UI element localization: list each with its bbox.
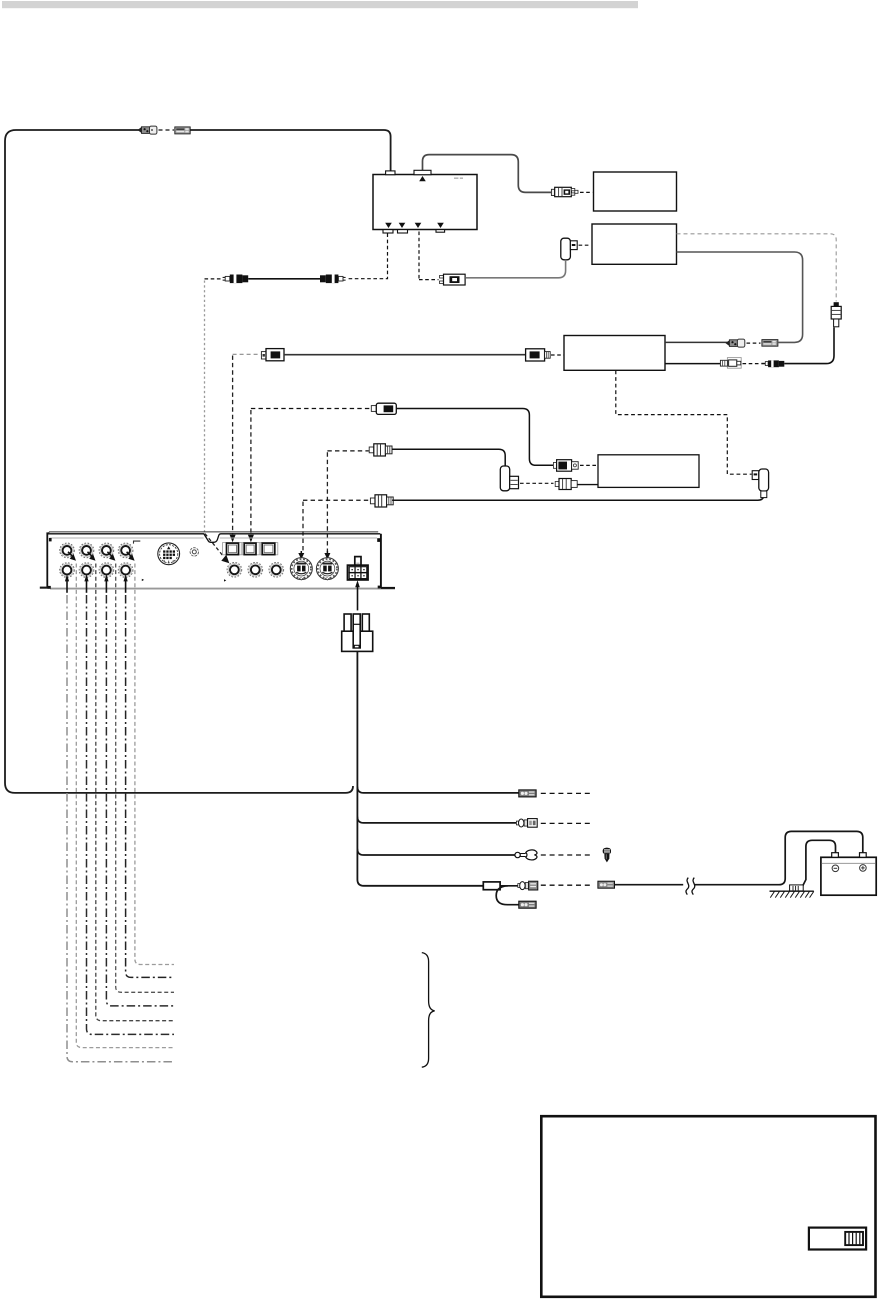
black plug left of box4 <box>553 460 578 472</box>
curly brace <box>422 953 435 1068</box>
din plug before box1 <box>551 187 578 196</box>
wire box2 right to female row1 <box>677 252 803 342</box>
dashed gap top-left pair <box>159 129 175 131</box>
box2 unit <box>592 224 677 264</box>
panel top edge with notch <box>47 534 381 543</box>
up arrows into bottom jacks <box>65 574 128 593</box>
long video cable line <box>284 354 526 356</box>
box3 unit <box>564 336 665 371</box>
notes box bottom right <box>541 1116 875 1297</box>
battery <box>821 853 876 896</box>
wire barrel to box4 <box>578 484 598 486</box>
ground lug <box>790 885 804 891</box>
rca jacks bottom row <box>60 563 75 578</box>
dashed vertical arrow to round connector2 <box>326 452 328 551</box>
dashed elbow to barrel <box>520 482 554 484</box>
din round connector on panel <box>158 543 180 565</box>
small screw circle on panel <box>190 548 198 556</box>
lead line arrow4 gray dash <box>135 564 174 965</box>
antenna connector vertical <box>831 302 841 327</box>
svideo connector <box>440 274 466 285</box>
tv tuner box <box>373 175 477 230</box>
lead line jack4 black dashdot <box>126 595 174 977</box>
harness 3-prong connector <box>342 614 373 651</box>
harness branch 3 <box>357 849 515 855</box>
lead line arrow3 dark dash <box>116 564 174 993</box>
panel inner top line left <box>50 537 204 539</box>
tuner bottom tab4 <box>436 230 445 233</box>
male connector row1 <box>726 339 745 347</box>
wire y407 to black plug <box>397 409 554 466</box>
lead line arrow1 gray dash <box>76 564 174 1048</box>
dashed y500 left <box>303 499 370 501</box>
cable y407 connector <box>371 403 396 414</box>
gray dashed box2 to antenna connector <box>677 234 837 302</box>
dashed plug to box2 <box>579 244 591 246</box>
dashed branch2 <box>541 822 591 824</box>
fork terminal branch3 <box>515 850 537 860</box>
rca cable left plug <box>223 275 249 284</box>
dashed vertical arrow to slot2 <box>250 410 252 535</box>
switch icon in notes box <box>809 1228 866 1250</box>
dashed right plug to box3 <box>551 354 564 356</box>
power connector 6pin <box>348 557 369 580</box>
screw icon <box>603 848 611 863</box>
dashed branch3 <box>541 854 591 856</box>
harness branch 2 <box>357 817 516 823</box>
panel left edge thick <box>46 532 48 588</box>
wire rca male to antenna connector <box>784 327 834 363</box>
lead line jack1 gray dashdot <box>67 595 174 1062</box>
wire break symbol <box>683 878 694 892</box>
dashed from y407 connector to slot2 line <box>251 408 371 410</box>
dashed path box3 bottom to elbow plug <box>616 371 752 475</box>
connector pair male top-left <box>138 126 157 134</box>
tiny triangle mark left <box>142 579 144 581</box>
diagonal arrows from top jacks <box>68 552 135 561</box>
connector female top-left <box>175 127 190 134</box>
tiny triangle mark mid <box>224 579 226 581</box>
lead line jack3 black dashdot <box>106 595 174 1006</box>
wire up to battery plus <box>779 831 863 884</box>
cable y449 connector <box>369 444 392 456</box>
tuner tiny marks <box>454 178 458 179</box>
rca jacks right trio <box>227 563 242 578</box>
gray dotted vertical to unit <box>204 281 206 532</box>
dashed branch1 <box>541 792 591 794</box>
dashed left of rca cable <box>205 278 223 280</box>
long video cable left plug <box>261 349 284 361</box>
lead line jack2 black dashdot <box>87 595 175 1034</box>
wire y500 to right elbow <box>392 491 764 501</box>
rca male plug row2 <box>761 360 784 367</box>
dashed branch4 <box>541 884 593 886</box>
wire female to tv tuner box <box>190 130 390 171</box>
slot 2 <box>244 543 256 555</box>
wire y449 to elbow <box>392 449 505 466</box>
wire after fuse <box>501 885 519 887</box>
dashed vertical arrow to slot1 <box>232 356 234 535</box>
dashed y449 left <box>327 450 368 452</box>
spade terminal branch1 <box>519 790 536 797</box>
wire box3 right row2 <box>665 363 721 365</box>
wire plug down to svideo line <box>466 260 566 278</box>
panel right edge thick <box>380 534 382 588</box>
dashed black plug to box4 <box>580 464 597 466</box>
ground symbol <box>770 890 814 892</box>
loop stub wire <box>496 886 518 905</box>
bullet terminal branch2 <box>516 819 537 828</box>
long video cable right plug <box>526 349 551 361</box>
tuner bottom tab2 <box>398 230 408 233</box>
tuner top tab small <box>386 171 395 175</box>
corner bracket mark <box>134 541 141 544</box>
slot 1 <box>227 543 239 555</box>
tuner bottom tab1 <box>383 230 393 233</box>
fuse holder branch4 <box>483 882 500 890</box>
right clip mark <box>377 538 381 542</box>
wire box3 right row1 <box>665 341 728 343</box>
barrel connector before box4 <box>555 479 577 490</box>
rca female row2 <box>720 358 741 369</box>
wire tuner top to din plug <box>423 155 552 193</box>
bullet striped terminal branch4 <box>518 881 538 890</box>
up arrow to 6pin connector <box>357 587 359 611</box>
rca jacks top row <box>60 543 75 558</box>
dashed diagonal arrow to unit rca1 <box>205 534 224 557</box>
tuner top tab wide <box>414 170 431 174</box>
panel inner top line right <box>220 537 377 539</box>
harness branch 1 <box>357 787 518 793</box>
header gray bar <box>2 1 638 8</box>
lead line arrow2 dark dash <box>96 564 174 1021</box>
ground wire to battery minus <box>800 840 835 890</box>
box4 unit <box>598 455 699 488</box>
striped spade right of branch4 <box>598 881 615 888</box>
tuner triangle up <box>419 176 426 181</box>
spade terminal stub <box>519 901 536 908</box>
elbow connector mid <box>500 466 518 491</box>
battery feed wire <box>615 884 779 886</box>
cable y500 connector <box>370 495 393 507</box>
harness main wire down <box>357 652 483 886</box>
dashed vertical arrow to round connector1 <box>302 502 304 552</box>
gray dashed left of video cable <box>233 353 261 355</box>
dashed vertical from tuner triangle3 <box>418 232 420 280</box>
big round connector 1 <box>290 558 312 580</box>
plug left of box2 <box>561 238 577 260</box>
left clip mark <box>49 538 52 541</box>
dashed din plug to box1 <box>580 191 593 193</box>
dashed from tuner tab1 to rca cable <box>347 233 388 278</box>
box1 display unit <box>594 172 677 211</box>
panel top lip <box>49 531 378 533</box>
dashed row1 <box>747 342 761 344</box>
panel bottom gray shadow <box>50 588 395 590</box>
UNIT head rear panel <box>40 532 395 589</box>
dashed into svideo <box>419 279 439 281</box>
wire long loop top-left to harness <box>5 130 353 793</box>
tuner triangles down <box>385 223 392 228</box>
left foot <box>40 587 48 589</box>
rca cable right plug <box>320 275 346 284</box>
big round connector 2 <box>316 558 338 580</box>
rca cable line <box>248 278 320 280</box>
right corner foot <box>378 586 382 589</box>
dashed row2 <box>743 363 760 365</box>
slot 3 <box>262 543 275 555</box>
slot bay outline <box>223 543 278 555</box>
female striped row1 <box>762 340 778 347</box>
elbow plug bottom right of box4 <box>752 469 768 498</box>
